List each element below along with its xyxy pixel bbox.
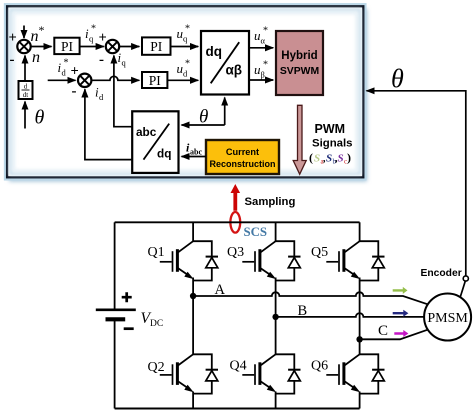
node C label xyxy=(378,323,388,339)
transistor Q1 xyxy=(160,241,218,280)
wire iq feedback from abc/dq to S2 xyxy=(114,56,132,127)
node ubeta* label xyxy=(254,60,268,80)
wire id* input xyxy=(48,79,76,81)
wire theta feedback from encoder to controller xyxy=(367,91,466,276)
svg-text:Sampling: Sampling xyxy=(245,196,296,208)
summing junction S2 (iq) xyxy=(99,30,120,68)
svg-text:S: S xyxy=(338,153,344,165)
transistor Q6 label xyxy=(311,359,328,374)
svg-text:θ: θ xyxy=(391,64,404,93)
wire PI3 to dq block xyxy=(167,79,198,81)
transistor Q1 label xyxy=(148,245,165,260)
sampling arrow (red) xyxy=(231,184,241,211)
node n label xyxy=(32,49,40,66)
svg-text:*: * xyxy=(185,24,190,35)
node ualpha* label xyxy=(254,26,268,46)
wire speed calc to S1 (n feedback) xyxy=(24,56,26,82)
svg-text:S: S xyxy=(314,153,320,165)
svg-text:Q2: Q2 xyxy=(148,360,165,375)
wire phase C xyxy=(360,330,428,340)
svg-text:DC: DC xyxy=(150,319,163,329)
svg-text:C: C xyxy=(378,323,388,339)
svg-text:*: * xyxy=(64,58,69,69)
svg-text:Q3: Q3 xyxy=(227,245,244,260)
transistor Q4 label xyxy=(230,359,247,374)
svg-text:Q1: Q1 xyxy=(148,245,165,260)
summing junction S1 (speed) xyxy=(9,30,31,68)
node B label xyxy=(298,303,308,319)
svg-text:): ) xyxy=(347,151,351,165)
node n* label xyxy=(31,23,45,45)
block Current Reconstruction xyxy=(206,140,279,174)
transistor Q6 xyxy=(326,354,384,393)
wire PI1 to S2 xyxy=(80,46,104,48)
wire leg 2 segments xyxy=(275,222,277,408)
SCS label xyxy=(244,225,267,239)
svg-text:n: n xyxy=(31,28,39,45)
motor PMSM xyxy=(424,294,471,341)
svg-text:PWM: PWM xyxy=(315,122,346,136)
transistor Q3 xyxy=(242,241,300,280)
wire phase B with hop over leg 3 xyxy=(276,313,425,317)
svg-text:B: B xyxy=(298,303,308,319)
wire S3 to PI3 with hop over iq line xyxy=(91,76,139,80)
svg-text:θ: θ xyxy=(199,107,208,128)
node ud* label xyxy=(177,59,191,79)
PWM Signals label xyxy=(312,122,353,150)
Encoder label xyxy=(421,268,462,279)
wire theta to dq block and abc block xyxy=(182,98,225,126)
controller outer box xyxy=(7,6,363,177)
svg-text:+: + xyxy=(9,30,17,46)
svg-text:(: ( xyxy=(309,151,313,165)
block Hybrid SVPWM xyxy=(276,31,323,95)
summing junction S3 (id) xyxy=(71,64,92,100)
svg-text:*: * xyxy=(185,59,190,70)
controller outer box shadow xyxy=(9,9,367,182)
wire DC bus bottom rail xyxy=(115,408,360,410)
node theta label at speed calc xyxy=(35,107,45,129)
svg-text:θ: θ xyxy=(35,107,45,129)
PI controller PI3 (id) xyxy=(142,72,167,88)
PI controller PI1 (speed) xyxy=(54,38,79,54)
phase A arrow (green) xyxy=(393,287,408,294)
wire iabc from current reconstruction to abc/dq xyxy=(182,156,207,158)
wire S1 to PI1 xyxy=(31,46,52,48)
wire ualpha* to SVPWM xyxy=(249,47,273,49)
block dq/alphabeta transform xyxy=(201,31,249,95)
wire phase A with hops over legs 2 and 3 xyxy=(193,292,428,304)
node VDC label xyxy=(141,310,164,329)
transistor Q2 label xyxy=(148,360,165,375)
svg-text:Signals: Signals xyxy=(312,138,353,150)
wire S2 to PI2 xyxy=(119,46,139,48)
phase C arrow (magenta) xyxy=(394,330,408,337)
block abc/dq transform xyxy=(132,111,178,173)
svg-text:dt: dt xyxy=(23,91,29,99)
svg-text:*: * xyxy=(263,26,268,37)
node iabc label xyxy=(186,141,202,157)
Sampling label xyxy=(245,196,296,208)
controller outer box halo xyxy=(7,6,363,177)
svg-text:Current: Current xyxy=(226,147,259,157)
svg-text:Encoder: Encoder xyxy=(421,268,462,279)
svg-text:*: * xyxy=(91,24,96,35)
transistor Q5 xyxy=(326,241,384,280)
transistor Q3 label xyxy=(227,245,244,260)
wire id feedback from abc/dq to S3 xyxy=(85,89,132,159)
svg-text:-: - xyxy=(99,52,104,68)
node iq* label xyxy=(85,24,96,44)
svg-text:PI: PI xyxy=(150,39,163,54)
svg-text:*: * xyxy=(263,60,268,71)
block speed calc 1/s xyxy=(19,81,33,99)
svg-text:+: + xyxy=(99,30,107,46)
svg-text:S: S xyxy=(326,153,332,165)
svg-text:abc: abc xyxy=(190,148,202,157)
node theta label internal xyxy=(199,107,208,128)
svg-text:SCS: SCS xyxy=(244,225,267,239)
wire n* input arrow xyxy=(23,26,25,39)
transistor Q2 xyxy=(160,354,218,393)
svg-text:*: * xyxy=(39,23,45,37)
phase B arrow (blue) xyxy=(393,310,409,317)
node B junction xyxy=(272,314,278,320)
wire leg 3 segments xyxy=(359,222,361,408)
encoder dot xyxy=(463,276,468,281)
svg-text:PI: PI xyxy=(61,39,74,54)
svg-text:d: d xyxy=(24,83,28,91)
node iq feedback label xyxy=(118,50,127,68)
svg-text:n: n xyxy=(32,49,40,66)
PWM signals arrow xyxy=(293,105,306,174)
svg-text:α: α xyxy=(261,36,266,46)
wire ubeta* to SVPWM xyxy=(249,79,273,81)
svg-text:αβ: αβ xyxy=(226,63,243,78)
svg-text:Q6: Q6 xyxy=(311,359,328,374)
svg-text:abc: abc xyxy=(136,125,157,139)
svg-text:Hybrid: Hybrid xyxy=(281,50,317,62)
node Sa Sb Sc label xyxy=(309,151,351,166)
node uq* label xyxy=(177,24,191,44)
svg-text:-: - xyxy=(10,52,15,68)
svg-text:Q4: Q4 xyxy=(230,359,247,374)
node id feedback label xyxy=(95,85,104,103)
node A label xyxy=(215,282,226,298)
svg-text:+: + xyxy=(71,64,79,80)
battery VDC xyxy=(96,222,136,408)
svg-text:β: β xyxy=(261,70,265,80)
svg-text:dq: dq xyxy=(206,44,223,59)
PI controller PI2 (iq) xyxy=(142,37,171,54)
wire DC bus top rail xyxy=(115,221,360,223)
wire theta input to speed calc xyxy=(24,102,26,129)
node A junction xyxy=(190,293,196,299)
node theta label external xyxy=(391,64,404,93)
svg-text:PI: PI xyxy=(149,73,162,88)
svg-text:dq: dq xyxy=(157,147,171,161)
svg-text:Q5: Q5 xyxy=(311,245,328,260)
svg-text:PMSM: PMSM xyxy=(427,311,468,326)
transistor Q4 xyxy=(242,354,300,393)
node C junction xyxy=(356,336,362,342)
wire PI2 to dq block xyxy=(171,46,199,48)
transistor Q5 label xyxy=(311,245,328,260)
wire leg 1 segments xyxy=(192,222,194,408)
svg-text:SVPWM: SVPWM xyxy=(280,66,319,77)
wire PMSM to encoder dot xyxy=(460,281,465,297)
svg-text:-: - xyxy=(72,84,77,100)
svg-text:Reconstruction: Reconstruction xyxy=(209,159,275,169)
node id* label xyxy=(58,58,69,78)
controller inner glow xyxy=(11,10,360,174)
svg-text:A: A xyxy=(215,282,226,298)
SCS sensor ellipse (red) xyxy=(230,212,240,233)
